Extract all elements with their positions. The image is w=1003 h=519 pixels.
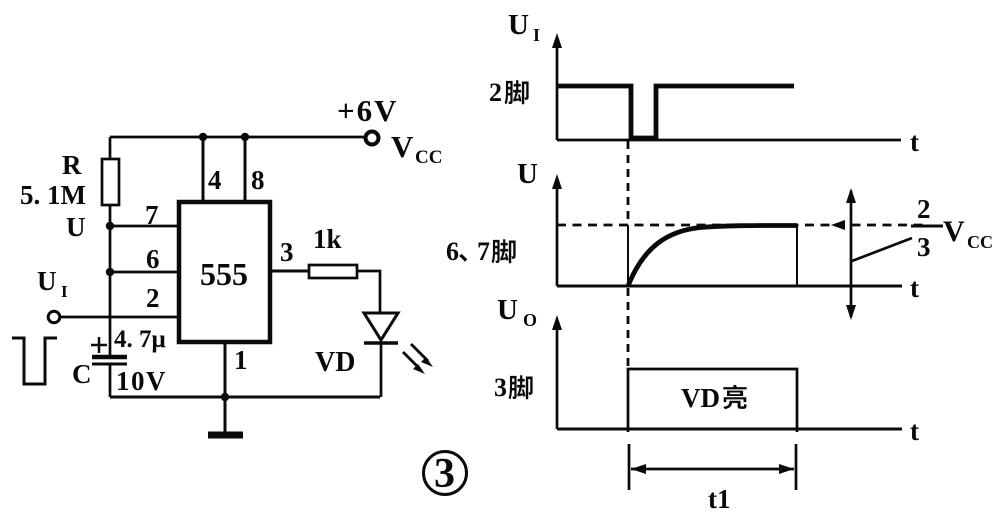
label 3jiao (494, 373, 533, 402)
svg-text:10V: 10V (116, 366, 167, 396)
svg-text:t: t (910, 416, 919, 446)
dimension arrow 2/3Vcc (846, 188, 856, 320)
svg-text:+6V: +6V (337, 93, 399, 128)
svg-text:VD: VD (315, 347, 355, 378)
svg-text:7: 7 (477, 237, 490, 266)
svg-text:1k: 1k (313, 224, 342, 254)
svg-text:V: V (943, 215, 965, 248)
pointer line to fraction (852, 238, 912, 261)
svg-text:U: U (37, 266, 57, 296)
label 2jiao (489, 78, 529, 107)
arrowhead on dashed level (831, 220, 845, 230)
LED VD triangle (364, 313, 398, 340)
axis UO horizontal (557, 428, 902, 431)
wire LED to ground rail (380, 343, 383, 397)
LED light arrow 1 (411, 344, 433, 367)
wire R top (109, 137, 112, 159)
terminal Vcc (366, 132, 379, 145)
axis UI vertical (552, 33, 562, 140)
wire pin7 (110, 225, 179, 228)
svg-text:2: 2 (917, 194, 931, 224)
dashed line trigger to UO (627, 288, 630, 368)
svg-text:555: 555 (200, 256, 248, 292)
label UI (37, 266, 68, 301)
svg-text:2: 2 (489, 78, 502, 107)
waveform UI (557, 86, 794, 138)
input pulse symbol (12, 338, 57, 384)
svg-text:t: t (910, 127, 919, 157)
svg-text:I: I (61, 282, 68, 301)
wire R bottom (109, 205, 112, 226)
label Vcc (391, 129, 442, 168)
svg-text:3: 3 (917, 232, 931, 262)
svg-text:3: 3 (434, 451, 455, 497)
svg-text:VD: VD (681, 383, 720, 413)
node pin6 junction (106, 268, 114, 276)
svg-text:U: U (66, 212, 86, 242)
svg-text:8: 8 (251, 165, 265, 195)
axis UO vertical (552, 315, 562, 429)
wire pin4 (202, 137, 205, 202)
label UI diagram (508, 9, 540, 45)
waveform U charging curve (628, 225, 797, 286)
node pin8 (241, 133, 249, 141)
svg-text:R: R (62, 150, 82, 180)
wire node U to node 6 (109, 226, 112, 272)
svg-text:t1: t1 (708, 484, 731, 514)
terminal input UI (48, 311, 60, 323)
wire pin3 (270, 270, 309, 273)
line curve end vertical (796, 226, 798, 286)
wire 1k to LED (357, 271, 380, 313)
wire pin1 (224, 342, 227, 433)
svg-text:4: 4 (208, 165, 222, 195)
fraction bar (911, 225, 943, 228)
label VD liang (681, 383, 747, 413)
resistor R1 5.1M (102, 159, 119, 205)
svg-text:CC: CC (967, 232, 993, 252)
node pin4 (199, 133, 207, 141)
svg-text:I: I (533, 25, 540, 45)
LED light arrow 2 (403, 352, 425, 374)
wire Vcc rail (110, 136, 364, 139)
LED VD cathode bar (364, 341, 398, 345)
axis UI horizontal (557, 139, 901, 142)
svg-text:V: V (391, 129, 414, 164)
label UO diagram (497, 294, 537, 330)
capacitor C1 plus sign (91, 337, 107, 353)
wire pin8 (244, 137, 247, 202)
dashed line 2/3 Vcc level (557, 224, 926, 227)
svg-text:6: 6 (146, 244, 160, 274)
svg-text:5. 1M: 5. 1M (20, 180, 86, 210)
wire pin2 from input (60, 316, 179, 319)
dimension line t1 left (628, 444, 631, 490)
waveform UO pulse (628, 369, 797, 432)
svg-text:U: U (517, 158, 538, 190)
svg-text:2: 2 (146, 283, 160, 313)
axis U horizontal (557, 285, 902, 288)
dashed line trigger vertical (627, 141, 630, 225)
node pin1 junction (221, 393, 229, 401)
axis U vertical (552, 174, 562, 286)
capacitor C1 top plate (92, 355, 127, 360)
svg-text:4. 7μ: 4. 7μ (114, 326, 166, 353)
label 67jiao (446, 237, 516, 266)
svg-text:3: 3 (494, 373, 507, 402)
ground (208, 432, 243, 439)
svg-text:CC: CC (415, 147, 442, 168)
svg-text:O: O (523, 310, 537, 330)
svg-text:3: 3 (280, 237, 294, 267)
wire pin6 (110, 271, 179, 274)
label Vcc right (943, 215, 993, 252)
label fraction 2/3 (917, 194, 931, 262)
dimension line t1 right (795, 444, 798, 490)
op-amp U1 555 box (179, 202, 270, 342)
svg-text:t: t (910, 273, 919, 303)
svg-text:1: 1 (234, 345, 248, 375)
wire capacitor to ground rail (109, 364, 112, 397)
node U junction (106, 222, 114, 230)
svg-text:7: 7 (145, 200, 159, 230)
svg-text:U: U (497, 294, 518, 326)
figure number circle 3 (424, 452, 467, 495)
wire ground rail (110, 396, 380, 399)
line curve start vertical (627, 225, 629, 286)
svg-text:6: 6 (446, 237, 459, 266)
svg-text:U: U (508, 9, 529, 41)
wire node 6 down to capacitor (109, 272, 112, 355)
svg-text:C: C (72, 359, 92, 389)
capacitor C1 bottom plate (92, 363, 127, 366)
dimension arrow t1 (631, 464, 794, 474)
resistor R2 1k (309, 265, 357, 278)
